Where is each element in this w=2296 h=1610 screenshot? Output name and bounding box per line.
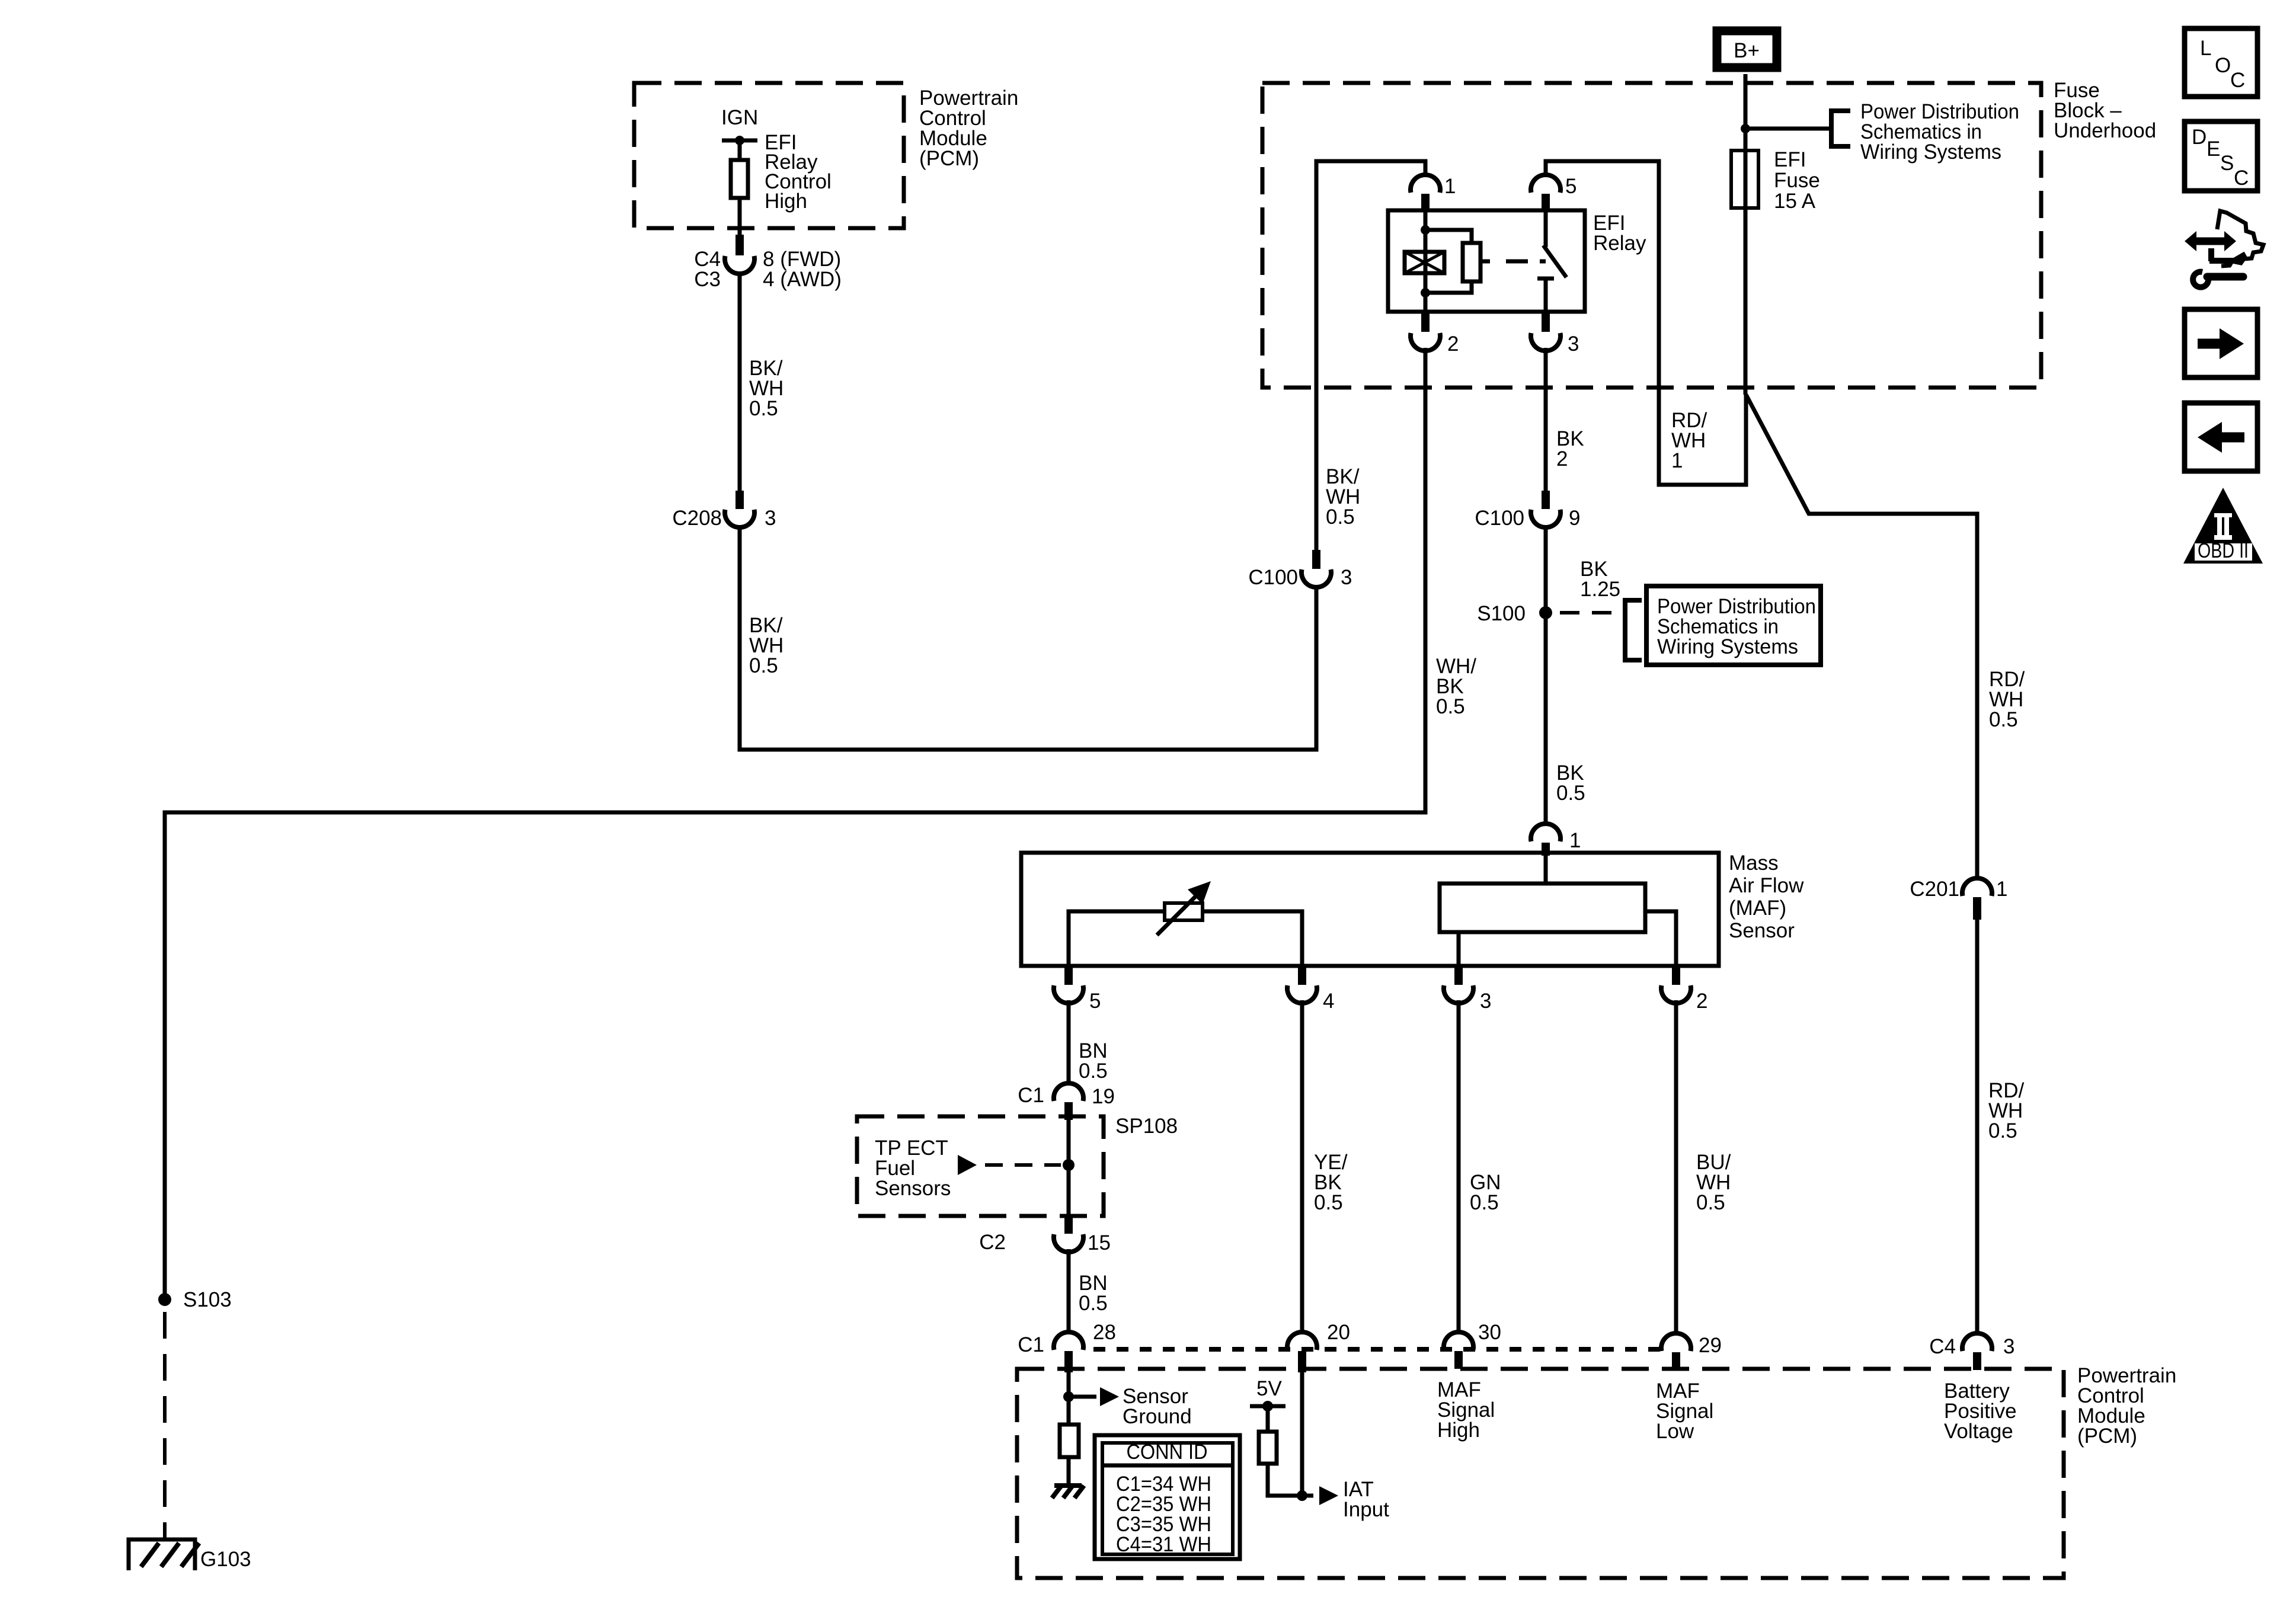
connector MAF pin 2 (1672, 967, 1680, 985)
svg-text:D: D (2192, 126, 2207, 149)
arrow label: Sensor Ground (1069, 1395, 1096, 1399)
connector C1 pin 29 (MAF Signal Low) (1661, 1333, 1691, 1351)
connector C4/C3 pin 8 (FWD) / 4 (AWD) (736, 235, 744, 255)
junction dot coil bottom (1421, 288, 1430, 297)
icon OBD II triangle (2183, 488, 2263, 564)
svg-text:4: 4 (1323, 990, 1334, 1013)
svg-text:Fuse: Fuse (1774, 169, 1820, 192)
connector C100 pin 3 (1312, 550, 1320, 569)
relay coil (box with X) (1405, 252, 1444, 273)
svg-text:Input: Input (1343, 1498, 1389, 1521)
svg-text:20: 20 (1327, 1321, 1350, 1344)
dashed reference wire from S100 (1560, 611, 1620, 614)
connector C4 pin 3 (Battery Positive Voltage) (1962, 1333, 1992, 1351)
wire BN 0.5 from MAF pin 5 to C1 pin 19 (1067, 1000, 1071, 1084)
svg-text:C2: C2 (979, 1231, 1006, 1254)
svg-text:CONN ID: CONN ID (1127, 1441, 1208, 1464)
svg-text:C208: C208 (672, 507, 722, 530)
svg-text:(MAF): (MAF) (1729, 897, 1786, 920)
svg-text:(PCM): (PCM) (919, 147, 979, 170)
wire from MAF pin 2 to C1 pin 29 (BU/WH 0.5) (1674, 1000, 1678, 1334)
connector C1 pin 28 (1054, 1332, 1083, 1350)
module box: Powertrain Control Module (PCM), top left (634, 83, 904, 228)
svg-text:Wiring Systems: Wiring Systems (1657, 635, 1798, 658)
icon arrow left (2185, 403, 2257, 471)
connector C1 pin 30 (MAF Signal High) (1444, 1332, 1473, 1350)
svg-text:0.5: 0.5 (1436, 695, 1465, 718)
svg-text:3: 3 (765, 507, 776, 530)
wire BK 1.25 from C100 pin 9 to S100 (1544, 526, 1548, 613)
connector C201 pin 1 (1962, 878, 1992, 896)
wire to power distribution reference (1745, 127, 1830, 131)
svg-text:OBD II: OBD II (2198, 539, 2249, 562)
svg-text:G103: G103 (200, 1548, 251, 1571)
svg-text:(PCM): (PCM) (2077, 1425, 2137, 1448)
power node B+ (1717, 31, 1777, 68)
wire BN 0.5 from C2 pin 15 to C1 pin 28 (1067, 1249, 1071, 1333)
MAF sensing element (1544, 856, 1548, 884)
svg-text:15: 15 (1088, 1231, 1111, 1254)
splice box SP108: TP ECT Fuel Sensors (857, 1116, 1104, 1216)
svg-text:2: 2 (1556, 447, 1568, 470)
svg-text:Sensors: Sensors (875, 1177, 951, 1200)
connector MAF pin 4 (1298, 967, 1306, 985)
splice S100 (1539, 606, 1552, 619)
svg-text:0.5: 0.5 (1470, 1191, 1499, 1214)
svg-text:Mass: Mass (1729, 852, 1779, 875)
connector C1 pin 19 (1054, 1083, 1083, 1101)
svg-text:9: 9 (1569, 507, 1580, 530)
connector MAF pin 3 (1454, 967, 1463, 985)
svg-text:1: 1 (1671, 449, 1683, 472)
svg-text:SP108: SP108 (1115, 1115, 1178, 1138)
wire RD/WH 1 from fuse to EFI relay pin 5 (1546, 161, 1746, 485)
wire BK/WH 0.5 from C4/C3 to C208 (738, 273, 742, 491)
relay coil wire (1424, 212, 1428, 312)
svg-text:IGN: IGN (721, 106, 758, 129)
svg-text:Low: Low (1656, 1420, 1694, 1443)
resistor R1: EFI Relay Control High driver (731, 160, 748, 198)
connector C100 pin 9 (1542, 491, 1550, 509)
wire BK 2 from relay pin 3 to C100 pin 9 (1544, 348, 1548, 491)
wire RD/WH 0.5 from fuse block to C201 (1746, 395, 1977, 879)
ground G103 (129, 1539, 195, 1570)
fuse F1: EFI Fuse 15 A (1731, 151, 1758, 208)
svg-text:0.5: 0.5 (749, 654, 778, 677)
svg-text:Ground: Ground (1123, 1405, 1192, 1428)
svg-text:C: C (2234, 167, 2249, 190)
wire from C1 pin 20 to IAT node (1300, 1372, 1304, 1496)
svg-text:0.5: 0.5 (749, 397, 778, 420)
wire from MAF pin 3 to C1 pin 30 (GN 0.5) (1457, 1000, 1461, 1333)
connector MAF pin 1 (1531, 824, 1560, 841)
wire from MAF pin 4 to C1 pin 20 (YE/BK 0.5) (1300, 1000, 1304, 1332)
junction dot coil top (1421, 225, 1430, 235)
svg-text:3: 3 (2003, 1335, 2014, 1358)
svg-text:B+: B+ (1734, 39, 1760, 62)
wire BK 0.5 from S100 to MAF pin 1 (1544, 613, 1548, 824)
svg-text:19: 19 (1092, 1085, 1115, 1108)
svg-text:29: 29 (1699, 1334, 1722, 1357)
wire sensor ground inside PCM (1067, 1372, 1071, 1425)
svg-text:0.5: 0.5 (1988, 1119, 2017, 1142)
relay parallel resistor R4 (1425, 230, 1472, 243)
connector MAF pin 5 (1064, 967, 1073, 985)
connector C1 pin 20 (1287, 1332, 1317, 1350)
svg-text:3: 3 (1568, 332, 1579, 356)
svg-text:S100: S100 (1477, 602, 1526, 625)
bracket and box: Power Distribution Schematics in Wiring Systems (reference at S100) (1625, 600, 1642, 660)
svg-text:Relay: Relay (1593, 232, 1646, 255)
junction dot sensor ground (1063, 1391, 1074, 1402)
svg-text:30: 30 (1478, 1321, 1501, 1344)
svg-text:C3: C3 (694, 268, 721, 291)
bracket: Power Distribution Schematics in Wiring Systems (reference) (1831, 111, 1850, 146)
svg-text:High: High (1437, 1419, 1480, 1442)
svg-text:1: 1 (1444, 175, 1456, 198)
svg-text:Sensor: Sensor (1729, 919, 1795, 942)
dashed wire from S103 to G103 (163, 1312, 167, 1539)
wire resistor to connector C4/C3 (738, 198, 742, 235)
svg-text:C4=31 WH: C4=31 WH (1116, 1533, 1211, 1556)
connector relay pin 2 (1421, 312, 1430, 332)
wire IGN to resistor (738, 140, 742, 160)
svg-text:0.5: 0.5 (1989, 708, 2018, 731)
connector C2 pin 15 (1064, 1216, 1073, 1234)
svg-text:4 (AWD): 4 (AWD) (763, 268, 842, 291)
svg-text:E: E (2207, 137, 2220, 161)
junction dot IAT (1297, 1490, 1307, 1501)
svg-text:0.5: 0.5 (1556, 782, 1585, 805)
connector relay pin 1 (1411, 175, 1440, 193)
resistor R3 (IAT pull-up) (1259, 1432, 1277, 1464)
svg-text:3: 3 (1341, 566, 1352, 589)
table: CONN ID (1095, 1435, 1240, 1559)
svg-text:0.5: 0.5 (1079, 1060, 1108, 1083)
svg-text:1.25: 1.25 (1580, 578, 1620, 601)
svg-text:C100: C100 (1475, 507, 1524, 530)
svg-text:Air Flow: Air Flow (1729, 874, 1804, 897)
svg-text:Wiring Systems: Wiring Systems (1860, 140, 2001, 164)
sensor box: Mass Air Flow (MAF) Sensor (1021, 853, 1719, 966)
svg-text:C100: C100 (1248, 566, 1298, 589)
icon arrow right (2185, 309, 2257, 377)
wire from B+ to EFI fuse (1744, 74, 1748, 395)
svg-text:L: L (2200, 37, 2211, 60)
svg-text:O: O (2215, 54, 2231, 77)
svg-text:2: 2 (1447, 332, 1459, 356)
svg-text:Underhood: Underhood (2054, 119, 2156, 142)
svg-text:1: 1 (1996, 878, 2007, 901)
svg-text:EFI: EFI (1774, 148, 1806, 171)
svg-text:3: 3 (1480, 990, 1491, 1013)
module box: Fuse Block - Underhood (1262, 83, 2041, 388)
svg-text:C1: C1 (1018, 1084, 1044, 1107)
svg-text:15 A: 15 A (1774, 190, 1816, 213)
svg-text:5V: 5V (1256, 1377, 1282, 1400)
icon service tools (arrows and wrench) (2195, 238, 2226, 245)
chassis ground (internal) (1054, 1483, 1082, 1488)
module box: Powertrain Control Module (PCM), bottom (1017, 1369, 2064, 1578)
svg-text:1: 1 (1569, 829, 1581, 852)
svg-text:0.5: 0.5 (1079, 1292, 1108, 1315)
svg-text:C4: C4 (1929, 1335, 1956, 1358)
resistor R2 (sensor ground) (1060, 1425, 1079, 1457)
arrow label: IAT Input (1302, 1494, 1313, 1498)
connector C208 pin 3 (736, 491, 744, 509)
wire RD/WH 0.5 from C201 to PCM C4 pin 3 (1975, 920, 1980, 1334)
wire WH/BK 0.5 from relay pin 2 to S103 (165, 348, 1425, 1299)
svg-text:5: 5 (1089, 990, 1101, 1013)
relay U1: EFI Relay box (1388, 210, 1585, 312)
connector relay pin 5 (1531, 175, 1560, 193)
icon DESC (2185, 121, 2257, 191)
svg-text:Voltage: Voltage (1944, 1420, 2013, 1443)
connector relay pin 3 (1542, 312, 1550, 332)
svg-text:0.5: 0.5 (1314, 1191, 1343, 1214)
svg-text:C: C (2230, 69, 2245, 92)
svg-text:5: 5 (1565, 175, 1576, 198)
svg-text:2: 2 (1696, 990, 1707, 1013)
svg-text:S: S (2220, 152, 2234, 175)
svg-text:C201: C201 (1910, 878, 1959, 901)
svg-text:High: High (765, 190, 807, 213)
svg-text:28: 28 (1093, 1321, 1116, 1344)
wire through splice SP108 (1067, 1120, 1071, 1216)
icon LOC (2185, 28, 2257, 97)
svg-text:0.5: 0.5 (1326, 505, 1355, 529)
variable resistor VR1 (MAF element) (1069, 911, 1165, 966)
wire BK/WH 0.5 from C100 pin 3 to EFI relay pin 1 (1316, 161, 1425, 550)
splice S103 (158, 1293, 171, 1306)
PCM connector C1 pin row (dotted) (1093, 1347, 1659, 1352)
svg-text:S103: S103 (183, 1288, 232, 1311)
wire BK/WH 0.5 from C208 to C100 pin 3 (740, 526, 1316, 750)
svg-text:0.5: 0.5 (1696, 1191, 1725, 1214)
relay switch contacts and blade (1544, 212, 1548, 247)
junction dot on B+ feed (1741, 124, 1750, 133)
svg-text:C1: C1 (1018, 1333, 1044, 1356)
relay actuator dashed link (1480, 260, 1490, 264)
